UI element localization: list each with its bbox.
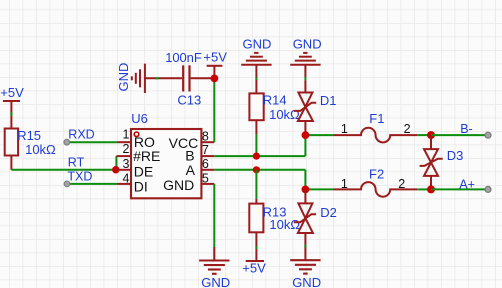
svg-text:2: 2 — [404, 122, 411, 136]
svg-text:GND: GND — [292, 275, 321, 288]
svg-text:A: A — [186, 162, 196, 178]
ground (left of C13, pointing left) — [132, 64, 182, 93]
wire A line to R13 — [255, 170, 257, 199]
node B junction (R14) — [253, 153, 260, 160]
svg-text:R15: R15 — [17, 128, 41, 143]
svg-text:C13: C13 — [177, 93, 201, 108]
svg-text:10kΩ: 10kΩ — [269, 107, 300, 122]
svg-text:8: 8 — [202, 130, 209, 144]
wire B net (pin7 to B- row) — [214, 135, 334, 156]
node D1/F1 junction — [302, 131, 310, 139]
U6 pin 4 stub — [118, 183, 132, 185]
node A junction (R13) — [253, 166, 260, 173]
svg-text:GND: GND — [116, 63, 131, 92]
wire R14 to B line — [255, 134, 257, 156]
fuse F1 — [334, 128, 418, 143]
U6 left pin names — [133, 134, 160, 194]
svg-text:+5V: +5V — [203, 49, 227, 64]
U6 right pin numbers — [202, 130, 209, 186]
U6 pin 2 stub — [116, 155, 131, 157]
ground (above D1) — [290, 53, 320, 77]
wire (D2 to gnd speck) — [304, 245, 306, 248]
resistor R15 — [5, 128, 56, 170]
U6 pin 3 stub — [116, 169, 131, 171]
svg-text:+5V: +5V — [0, 85, 24, 100]
node RXD open end — [64, 139, 70, 145]
U6 pin 1 stub — [118, 141, 132, 143]
diode D3 (TVS across line) — [420, 135, 443, 189]
wire (R13 to +5V speck) — [255, 246, 257, 249]
node F2/D3 junction — [427, 185, 435, 193]
wire (gnd-C13 speck) — [155, 77, 159, 79]
ground (below U6) — [199, 247, 229, 274]
svg-text:RT: RT — [68, 156, 85, 170]
U6 pin 6 stub — [201, 169, 214, 171]
node D2/F2 junction — [302, 186, 310, 194]
svg-text:R14: R14 — [263, 93, 287, 108]
svg-text:GND: GND — [163, 177, 194, 193]
svg-text:+5V: +5V — [242, 260, 266, 275]
svg-text:10kΩ: 10kΩ — [269, 217, 300, 232]
svg-text:1: 1 — [341, 122, 348, 136]
svg-text:F1: F1 — [369, 111, 384, 126]
U6 right pin names — [163, 135, 198, 193]
ground (below D2) — [290, 260, 320, 273]
node B- open end — [485, 132, 491, 138]
op-amp U6 body — [131, 111, 201, 198]
svg-text:5: 5 — [202, 171, 209, 185]
svg-text:1: 1 — [123, 128, 130, 142]
svg-text:RXD: RXD — [68, 128, 94, 142]
svg-text:TXD: TXD — [67, 170, 92, 184]
svg-text:7: 7 — [202, 143, 209, 157]
svg-text:2: 2 — [123, 142, 130, 156]
node F1/D3 junction — [427, 131, 435, 139]
wire (gnd-D1 speck) — [304, 77, 306, 80]
U6 pin 8 stub — [201, 141, 214, 143]
capacitor C13 — [183, 65, 214, 91]
svg-text:U6: U6 — [131, 111, 148, 126]
svg-text:D3: D3 — [447, 148, 464, 163]
svg-text:DI: DI — [134, 179, 148, 195]
svg-text:DE: DE — [134, 163, 153, 179]
svg-text:1: 1 — [341, 177, 348, 191]
diode D2 (TVS) — [294, 189, 316, 260]
wire (+5V to R15 speck) — [10, 112, 12, 116]
svg-text:D1: D1 — [320, 93, 337, 108]
wire F2 pin2 to node — [417, 188, 431, 190]
power +5V (left) — [3, 101, 20, 129]
power +5V (below R13) — [246, 260, 264, 262]
svg-text:2: 2 — [398, 177, 405, 191]
wire RXD — [67, 141, 118, 143]
node TXD open end — [64, 181, 70, 187]
svg-text:10kΩ: 10kΩ — [25, 142, 56, 157]
svg-text:6: 6 — [202, 157, 209, 171]
node VCC junction — [211, 75, 219, 83]
wire B- terminal — [431, 134, 486, 136]
svg-text:4: 4 — [123, 172, 130, 186]
svg-text:3: 3 — [123, 157, 130, 171]
U6 pin 7 stub — [201, 155, 214, 157]
U6 left pin numbers — [123, 128, 130, 186]
power +5V (top) — [207, 66, 223, 79]
wire A+ terminal — [431, 188, 486, 190]
svg-text:#RE: #RE — [133, 148, 160, 164]
svg-text:100nF: 100nF — [165, 50, 202, 65]
wire TXD — [67, 183, 118, 185]
resistor R13 — [249, 199, 300, 261]
svg-text:GND: GND — [243, 37, 272, 52]
wire RT net (R15 to U6 pins 2/3) — [11, 169, 117, 171]
svg-text:D2: D2 — [320, 205, 337, 220]
svg-text:B-: B- — [460, 122, 473, 136]
diode D1 (TVS) — [294, 80, 316, 131]
wire F1 pin2 to node — [417, 134, 431, 136]
U6 pin 5 stub — [201, 183, 214, 185]
node A+ open end — [485, 186, 491, 192]
node RT junction — [112, 166, 119, 173]
wire (gnd-R14 speck) — [255, 78, 257, 81]
ground (above R14) — [241, 53, 271, 94]
svg-text:F2: F2 — [369, 167, 384, 182]
wire VCC (node to pin 8) — [213, 78, 215, 142]
svg-text:GND: GND — [293, 37, 322, 52]
wire pin2 drop — [115, 156, 117, 170]
wire pin5 to ground — [213, 184, 215, 247]
svg-text:A+: A+ — [459, 177, 475, 191]
wire A net (pin6 to A+ row) — [214, 170, 334, 190]
resistor R14 — [249, 93, 300, 134]
fuse F2 — [334, 182, 418, 197]
svg-text:GND: GND — [201, 275, 230, 288]
